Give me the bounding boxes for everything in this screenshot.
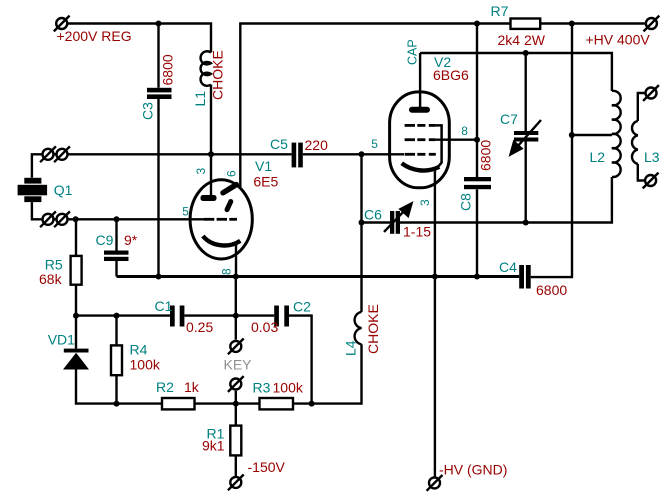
- svg-text:L3: L3: [644, 149, 660, 165]
- svg-text:Q1: Q1: [54, 182, 73, 198]
- svg-text:220: 220: [305, 137, 329, 153]
- svg-text:CHOKE: CHOKE: [365, 304, 381, 354]
- svg-text:68k: 68k: [39, 271, 63, 287]
- svg-text:9*: 9*: [124, 232, 138, 248]
- svg-text:1-15: 1-15: [403, 224, 431, 240]
- svg-text:C2: C2: [293, 299, 311, 315]
- svg-text:100k: 100k: [130, 357, 161, 373]
- svg-text:5: 5: [182, 205, 189, 219]
- svg-text:1k: 1k: [184, 379, 200, 395]
- svg-text:R3: R3: [253, 380, 271, 396]
- svg-text:6800: 6800: [160, 54, 176, 85]
- svg-text:C9: C9: [96, 232, 114, 248]
- svg-text:3: 3: [194, 168, 208, 175]
- svg-text:6800: 6800: [536, 282, 567, 298]
- svg-text:-150V: -150V: [248, 459, 286, 475]
- svg-text:5: 5: [371, 137, 378, 151]
- svg-text:6: 6: [225, 170, 239, 177]
- svg-text:L1: L1: [192, 91, 208, 107]
- svg-text:9k1: 9k1: [202, 438, 225, 454]
- svg-text:R2: R2: [156, 379, 174, 395]
- svg-text:C8: C8: [458, 193, 474, 211]
- svg-text:KEY: KEY: [224, 357, 253, 373]
- svg-text:L2: L2: [590, 149, 606, 165]
- svg-text:8: 8: [220, 268, 234, 275]
- svg-text:CAP: CAP: [406, 39, 420, 65]
- svg-text:-HV (GND): -HV (GND): [439, 462, 507, 478]
- svg-text:2k4 2W: 2k4 2W: [498, 32, 546, 48]
- svg-text:8: 8: [461, 124, 468, 138]
- svg-text:R4: R4: [130, 342, 148, 358]
- svg-text:C1: C1: [155, 298, 173, 314]
- svg-text:6800: 6800: [478, 140, 494, 171]
- svg-text:L4: L4: [343, 340, 359, 356]
- svg-text:C5: C5: [270, 136, 288, 152]
- svg-text:C4: C4: [499, 259, 517, 275]
- svg-text:+HV 400V: +HV 400V: [586, 32, 651, 48]
- svg-text:V1: V1: [255, 158, 272, 174]
- svg-text:R7: R7: [491, 3, 509, 19]
- svg-text:VD1: VD1: [48, 332, 75, 348]
- svg-text:C3: C3: [140, 102, 156, 120]
- svg-text:C6: C6: [364, 207, 382, 223]
- svg-text:+200V REG: +200V REG: [57, 28, 132, 44]
- svg-text:0.03: 0.03: [251, 319, 278, 335]
- svg-text:100k: 100k: [273, 380, 304, 396]
- svg-text:6E5: 6E5: [253, 174, 278, 190]
- svg-text:CHOKE: CHOKE: [210, 50, 226, 100]
- svg-text:0.25: 0.25: [186, 319, 213, 335]
- svg-text:6BG6: 6BG6: [433, 67, 469, 83]
- svg-text:C7: C7: [500, 111, 518, 127]
- svg-text:3: 3: [418, 199, 432, 206]
